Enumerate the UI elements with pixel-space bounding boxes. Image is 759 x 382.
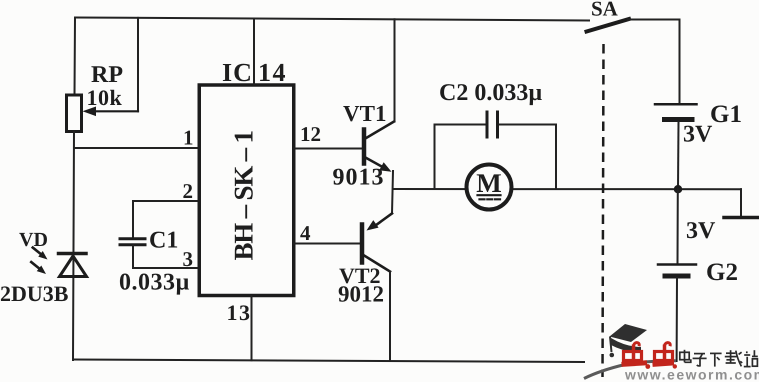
IC text BH-SK-1 [229,130,259,260]
wire SA to G1 [628,20,680,105]
capacitor C1 [120,239,145,245]
SA label [591,0,619,21]
svg-text:2DU3B: 2DU3B [0,281,69,306]
IC label [222,58,253,87]
wire node to ground [740,189,742,216]
photodiode VD [29,245,87,277]
svg-text:1: 1 [183,126,194,150]
pin 12 label [300,122,321,146]
pin 12 wire [294,148,362,150]
pin 1 label [183,126,194,150]
C2 label and value [439,80,542,106]
svg-text:IC: IC [222,58,253,87]
wire pin 1 [74,147,197,149]
pin 13 wire [251,296,253,360]
pin 3 label [183,247,194,271]
G2 label [706,259,738,286]
wire RP wiper feed from top rail [137,18,139,111]
capacitor C2 [487,112,498,137]
node battery junction [674,185,682,193]
switch SA blade [587,19,630,32]
VD label [19,229,48,251]
RP label [91,62,123,88]
VT2 label [339,263,381,288]
svg-text:C1: C1 [149,228,178,254]
wire VT1 collector to top rail [394,19,396,121]
resistor RP (potentiometer) [67,95,139,132]
transistor VT2 (9012 PNP) [362,214,392,272]
VT2 value 9012 [338,282,384,307]
svg-text:C2 0.033µ: C2 0.033µ [439,80,542,106]
watermark text dian zi xia zai zhan (black) [680,350,758,367]
wire C2 left bracket [435,125,486,190]
wire C2 right bracket [500,125,557,190]
svg-text:14: 14 [258,58,287,87]
pin 13 label [227,300,252,325]
watermark logo swoosh [584,361,676,379]
battery G2 [658,265,696,277]
svg-text:9012: 9012 [338,282,384,307]
svg-text:www.eeworm.com: www.eeworm.com [624,367,759,382]
svg-text:10k: 10k [87,85,123,110]
IC U1 BH-SK-1 box [199,85,294,296]
VT1 label [343,101,386,126]
svg-text:0.033µ: 0.033µ [119,270,190,296]
G1 voltage 3V [683,122,713,148]
svg-text:M: M [476,168,501,198]
svg-text:4: 4 [300,221,311,245]
dashed boundary line [603,44,604,377]
svg-text:3V: 3V [683,122,713,148]
svg-text:13: 13 [227,300,252,325]
svg-text:VT1: VT1 [343,101,386,126]
pin 14 label [258,58,287,87]
svg-text:3: 3 [183,247,194,271]
svg-text:SA: SA [591,0,619,21]
wire C1 bottom to pin 3 [133,246,197,269]
wire G2 to bottom rail [676,278,678,361]
svg-text:3V: 3V [686,218,716,244]
svg-text:12: 12 [300,122,321,146]
wire bottom rail [73,360,584,363]
wire left vertical RP bottom to bottom rail (through VD) [73,132,74,361]
VD type 2DU3B [0,281,69,306]
wire top rail [75,18,589,21]
watermark text chong chong (red) [622,343,678,369]
G1 label [710,101,742,128]
wire VT2 collector to bottom rail [389,272,391,361]
ground [724,216,758,220]
motor M [467,165,512,210]
watermark graduation cap logo [610,324,648,357]
pin 2 label [183,179,194,203]
VT1 value 9013 [333,165,385,191]
pin 2 wire [133,201,197,238]
wire left vertical to RP top [74,18,77,96]
wire G1 to node [677,122,680,189]
svg-text:2: 2 [183,179,194,203]
svg-text:BH – SK – 1: BH – SK – 1 [229,130,259,260]
wire motor line (emitters node to battery node) [393,188,741,190]
svg-text:VD: VD [19,229,48,251]
pin 4 wire [294,243,360,245]
transistor VT1 (9013 NPN) [364,122,394,176]
svg-text:G2: G2 [706,259,738,286]
C1 label [149,228,178,254]
svg-text:9013: 9013 [333,165,385,191]
svg-text:G1: G1 [710,101,742,128]
pin 4 label [300,221,311,245]
watermark url www.eeworm.com [624,367,759,382]
C1 value 0.033u [119,270,190,296]
wire node to G2 [677,189,679,264]
RP value 10k [87,85,123,110]
G2 voltage 3V [686,218,716,244]
wire VT1 emitter / VT2 emitter vertical [392,171,393,214]
battery G1 [655,104,697,119]
pin 14 wire [253,19,255,85]
